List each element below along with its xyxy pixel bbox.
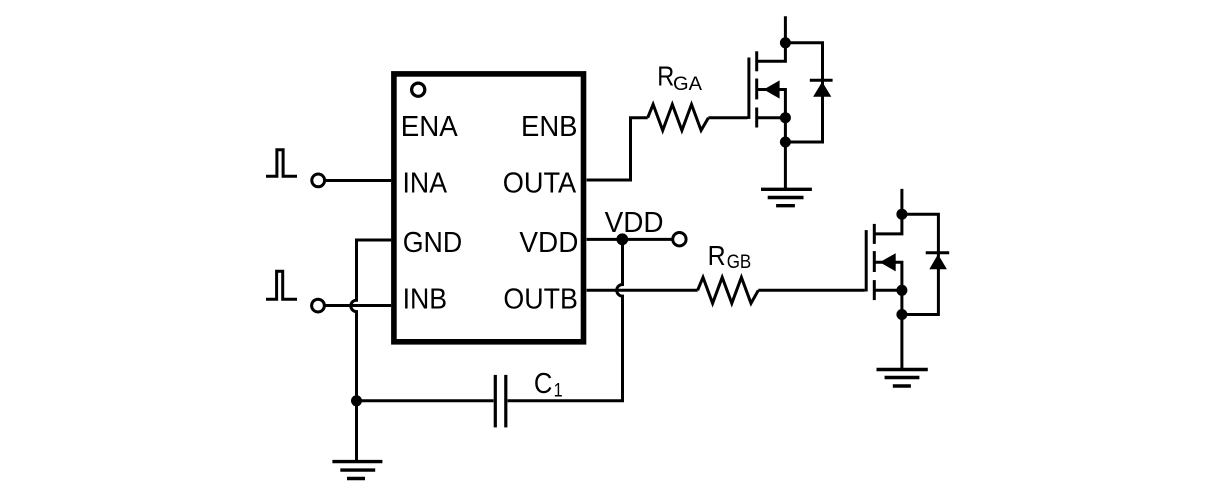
IC body U1 [394,74,584,342]
svg-text:GB: GB [727,251,752,273]
input terminal A [312,174,325,187]
input terminal B [312,299,325,312]
VDD terminal circle [673,233,686,246]
svg-text:GND: GND [403,227,463,259]
transistor Q2 (lower MOSFET) [866,189,902,370]
wire OUTB to RGB [587,289,698,292]
body connector [874,262,902,290]
svg-text:VDD: VDD [605,207,664,239]
svg-text:ENB: ENB [521,111,578,143]
node source Q2 [896,285,907,296]
diode D1 cathode bar [810,79,833,82]
source down wire [900,290,903,369]
wire C1 left [357,399,494,402]
ground symbol (Q2 source) [877,370,928,387]
svg-text:INB: INB [403,284,448,316]
svg-text:GA: GA [673,73,702,95]
node junction GND/C1 [351,395,362,406]
source down wire [784,118,787,190]
diode D2 triangle [929,254,947,269]
svg-text:R: R [657,60,674,91]
body diode D2 wires [902,214,939,314]
drain connector [757,16,786,61]
body arrow Q2 [880,253,896,271]
svg-text:VDD: VDD [519,227,578,259]
wire RGA to gate Q1 [708,116,747,119]
wire VDD pin [587,238,672,241]
pin-1 marker circle [412,83,425,96]
svg-text:C: C [534,368,553,400]
node source Q1 [780,112,791,123]
svg-text:INA: INA [403,168,448,200]
input pulse symbol A [266,150,297,177]
svg-text:1: 1 [554,380,563,401]
wire INA [326,179,392,182]
wire OUTA to RGA [587,118,648,180]
gate bar [865,230,868,291]
channel segments [755,51,758,71]
drain connector [874,189,902,234]
wire RGB to gate Q2 [758,289,865,292]
gate bar [747,58,750,119]
body connector [757,90,786,118]
node drain Q1 [780,37,791,48]
wire C1 right up to VDD node (with hop over OUTB wire) [508,239,623,400]
body arrow Q1 [764,80,780,98]
transistor Q1 (upper MOSFET) [749,16,786,189]
diode D1 triangle [813,82,831,97]
svg-text:OUTA: OUTA [503,168,577,200]
input pulse symbol B [266,271,297,299]
node source-diode Q1 [780,137,791,148]
wire GND pin to ground (with hop over INB wire) [351,240,391,462]
node VDD junction [616,233,628,245]
capacitor C1 [495,375,506,428]
ground symbol (left) [332,462,382,479]
svg-text:R: R [708,240,726,271]
ground symbol (Q1 source) [761,189,812,205]
resistor RGA [648,104,709,130]
wire INB [326,304,392,307]
diode D2 cathode bar [926,251,950,254]
node drain Q2 [896,209,907,220]
source connector [757,116,786,119]
svg-text:ENA: ENA [401,111,459,143]
body diode D1 wires [785,43,822,142]
resistor RGB [698,277,759,303]
svg-text:OUTB: OUTB [503,284,578,316]
channel segments [873,224,876,244]
node source-diode Q2 [896,309,907,320]
IC U1 dual gate driver [394,74,584,342]
source connector [874,289,902,292]
